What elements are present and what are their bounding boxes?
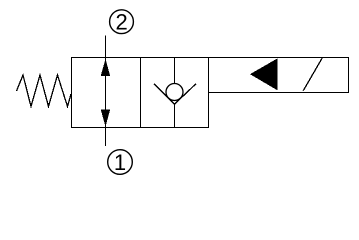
check valve inlet wire	[174, 58, 176, 85]
port 1 circle	[108, 150, 133, 175]
svg-text:1: 1	[114, 150, 126, 175]
flow arrowhead down	[101, 110, 111, 127]
port 2 wire	[105, 36, 107, 58]
solenoid triangle	[250, 58, 278, 90]
check valve seat	[154, 84, 196, 105]
flow arrowhead up	[101, 59, 111, 76]
spring	[17, 75, 72, 107]
port 1 wire	[105, 128, 107, 147]
solenoid slash	[303, 58, 322, 91]
svg-text:2: 2	[115, 10, 127, 35]
valve body	[72, 58, 209, 128]
check valve outlet wire	[174, 104, 176, 127]
solenoid box	[209, 58, 349, 93]
port 2 circle	[110, 10, 134, 34]
divider wire	[140, 58, 142, 128]
check valve ball	[166, 84, 183, 101]
flow arrow stem	[105, 58, 107, 128]
